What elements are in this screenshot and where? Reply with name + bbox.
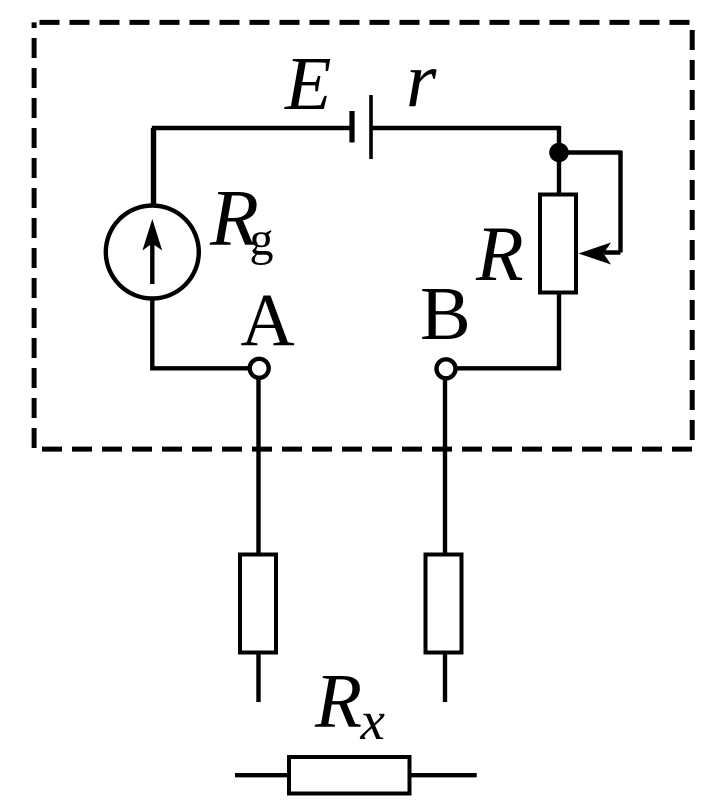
wire: galvanometer top lead (151, 128, 155, 205)
dashed enclosure box (33, 22, 692, 449)
wire: wiper tap from junction to arrow (559, 151, 621, 253)
galvanometer needle arrowhead (142, 219, 162, 251)
wire: battery positive plate to rheostat top (371, 126, 560, 194)
svg-text:A: A (241, 279, 295, 362)
dashed box right edge (690, 22, 695, 449)
svg-text:R: R (314, 658, 362, 744)
resistor Rx (body) (289, 757, 410, 794)
wire: terminal B down to right resistor (443, 368, 447, 552)
galvanometer Rg (circle) (106, 206, 199, 299)
dashed box left edge (32, 22, 37, 449)
svg-text:g: g (250, 213, 274, 266)
svg-text:r: r (406, 36, 437, 123)
wire: right resistor bottom lead (443, 655, 447, 703)
wire: Rx right lead (410, 773, 477, 777)
dashed box bottom edge (33, 447, 692, 452)
wire: terminal A down to left resistor (256, 378, 260, 553)
wire: rheostat bottom to terminal B (446, 292, 559, 368)
dashed box top edge (33, 20, 692, 25)
left series resistor (below A) (240, 555, 276, 653)
wire: battery negative plate to galvanometer top (154, 128, 352, 204)
terminal A (open circle) (250, 359, 269, 378)
junction node (dot) (549, 143, 569, 163)
svg-text:E: E (284, 42, 331, 126)
right series resistor (below B) (426, 555, 462, 653)
wire: galvanometer bottom to terminal A (152, 296, 259, 368)
wire: Rx left lead (235, 773, 289, 777)
wiper arrowhead (579, 243, 612, 265)
terminal B (open circle) (437, 359, 456, 378)
battery long plate (369, 95, 373, 159)
rheostat R (rectangle body) (540, 195, 576, 293)
galvanometer needle shaft (150, 240, 154, 284)
wire: left resistor bottom lead (256, 655, 260, 703)
battery short plate (349, 111, 354, 143)
svg-text:x: x (360, 690, 386, 751)
svg-text:R: R (475, 210, 524, 297)
svg-text:B: B (420, 272, 471, 356)
